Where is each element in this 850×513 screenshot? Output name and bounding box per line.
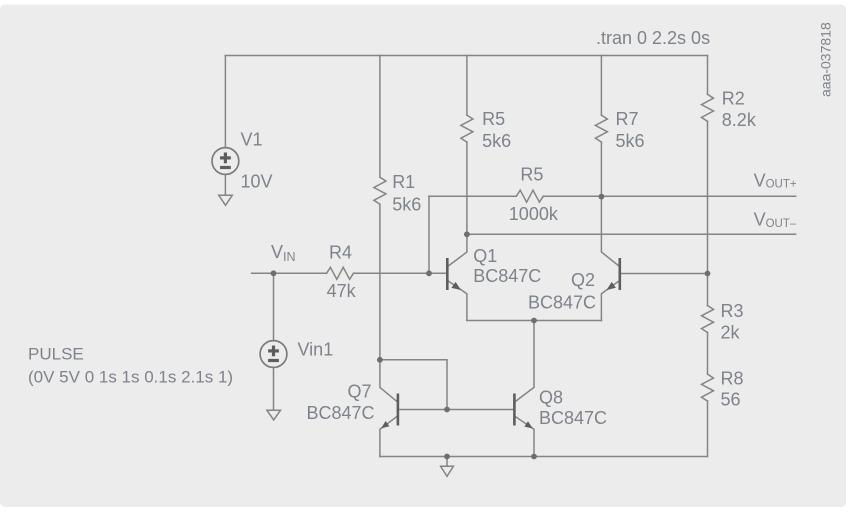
svg-text:1000k: 1000k (509, 204, 559, 224)
resistor R2 (702, 94, 714, 121)
resistor R5 1000k (516, 190, 543, 202)
wire top supply rail (225, 55, 707, 57)
voltage source V1 (212, 148, 239, 175)
svg-text:BC847C: BC847C (528, 293, 596, 313)
resistor R4 (327, 267, 354, 279)
wire Q7 collector-base tie (380, 360, 447, 410)
transistor Q7 (381, 394, 398, 429)
svg-text:aaa-037818: aaa-037818 (818, 22, 834, 97)
node VOUT+ Q2 collector junction (599, 194, 605, 200)
node Q1 base junction (426, 270, 432, 276)
svg-text:V1: V1 (241, 130, 263, 150)
node Q8 emitter junction (531, 454, 537, 460)
svg-text:2k: 2k (721, 322, 741, 342)
ground below V1 (219, 195, 233, 205)
wire VOUT+ line (543, 195, 795, 197)
svg-text:R3: R3 (721, 301, 744, 321)
resistor R8 (702, 374, 714, 401)
wire Q2 base (621, 273, 708, 275)
svg-text:10V: 10V (241, 171, 273, 191)
svg-text:BC847C: BC847C (473, 266, 541, 286)
wire R3 to R8 (707, 333, 709, 375)
svg-text:R7: R7 (616, 109, 639, 129)
resistor R1 (374, 177, 386, 204)
svg-text:(0V 5V 0 1s 1s 0.1s 2.1s 1): (0V 5V 0 1s 1s 0.1s 2.1s 1) (28, 368, 233, 387)
svg-text:R5: R5 (482, 109, 505, 129)
wire R7 branch lower (600, 142, 602, 197)
node ground rail junction (444, 454, 450, 460)
svg-text:Vin1: Vin1 (298, 339, 334, 359)
svg-text:5k6: 5k6 (392, 194, 421, 214)
svg-text:Q8: Q8 (539, 388, 563, 408)
wire R8 to bottom rail (707, 401, 709, 456)
svg-text:R2: R2 (722, 88, 745, 108)
wire V1 bottom stub (224, 174, 226, 195)
svg-text:Q2: Q2 (571, 270, 595, 290)
voltage source Vin1 (260, 341, 287, 368)
wire R5 branch upper (466, 56, 468, 116)
svg-text:PULSE: PULSE (28, 345, 84, 364)
node emitter rail junction (531, 318, 537, 324)
wire Q7 emitter (380, 417, 397, 457)
wire R1 branch lower (379, 204, 381, 360)
svg-text:R1: R1 (392, 172, 415, 192)
wire Q2 collector (601, 197, 618, 266)
wire Q2 emitter (601, 281, 618, 320)
wire bottom rail (380, 456, 708, 458)
ground bottom (441, 466, 454, 476)
wire Vin1 top stub (273, 273, 275, 341)
wire Vin1 bottom stub (273, 367, 275, 410)
wire Q8 collector riser (516, 321, 534, 402)
svg-text:5k6: 5k6 (482, 131, 511, 151)
svg-text:.tran 0 2.2s 0s: .tran 0 2.2s 0s (596, 28, 710, 48)
resistor R7 (595, 115, 607, 142)
svg-text:R8: R8 (721, 369, 744, 389)
wire emitter rail Q1 Q2 (467, 320, 602, 322)
wire Q7 Q8 base (399, 409, 513, 411)
wire Q1 collector (449, 234, 467, 265)
wire VOUT- line (467, 233, 796, 235)
wire R1 branch upper (379, 56, 381, 178)
wire Q8 emitter (516, 417, 534, 457)
svg-text:R5: R5 (520, 164, 543, 184)
svg-text:Q7: Q7 (348, 382, 372, 402)
svg-text:BC847C: BC847C (539, 408, 607, 428)
wire R4 to Q1 base (354, 272, 447, 274)
node Q7 collector junction (377, 357, 383, 363)
wire R7 branch upper (600, 56, 602, 116)
wire Q1 emitter (449, 281, 467, 320)
node VOUT- Q1 collector junction (464, 231, 470, 237)
transistor Q2 (607, 258, 620, 290)
wire Q7 collector (380, 360, 397, 402)
wire V1 top stub (224, 56, 226, 149)
node VIN junction (271, 270, 277, 276)
svg-text:56: 56 (721, 390, 741, 410)
resistor R5 vertical (461, 115, 473, 142)
node Q2 base R2 R3 junction (705, 271, 711, 277)
wire feedback left segment (429, 195, 516, 197)
svg-text:8.2k: 8.2k (722, 110, 757, 130)
wire feedback node to Q1 base (428, 196, 430, 273)
svg-text:Q1: Q1 (473, 246, 497, 266)
svg-text:BC847C: BC847C (307, 403, 375, 423)
wire R5 branch lower (466, 142, 468, 234)
transistor Q8 (514, 394, 532, 429)
node Q7 Q8 base junction (444, 407, 450, 413)
wire R2 top stub (707, 56, 709, 95)
svg-text:5k6: 5k6 (616, 131, 645, 151)
resistor R3 (702, 306, 714, 333)
wire ground stub bottom (446, 457, 448, 467)
transistor Q1 (447, 258, 461, 290)
ground below Vin1 (267, 410, 281, 420)
wire VIN input left (252, 272, 327, 274)
svg-text:47k: 47k (327, 281, 357, 301)
wire R2 to Q2 base node (707, 121, 709, 305)
svg-text:R4: R4 (329, 242, 352, 262)
